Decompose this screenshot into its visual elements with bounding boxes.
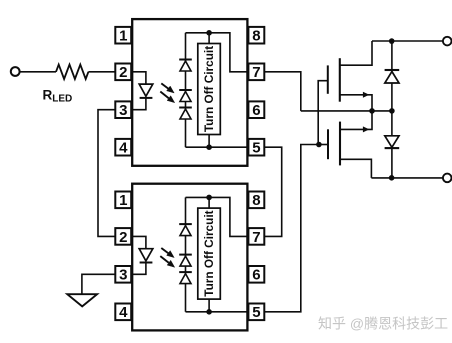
Q2 gate wire <box>319 144 328 146</box>
U1 top rail wire to pin7 <box>186 33 249 72</box>
svg-text:4: 4 <box>119 140 128 157</box>
gate tie wire <box>318 81 328 145</box>
wire U2 pin3 to ground <box>82 274 115 294</box>
svg-text:3: 3 <box>119 267 127 284</box>
output terminal T3 <box>443 174 452 183</box>
U1 LED <box>139 84 153 96</box>
U2 pin 4 <box>115 304 131 322</box>
U1 pin 4 <box>115 139 131 157</box>
U1 LED cathode wire to pin3 <box>132 98 146 110</box>
U1 TOC bottom stub <box>208 135 210 148</box>
U2 turn off circuit block <box>198 208 221 299</box>
U1 turn off circuit block <box>198 44 221 135</box>
U2 LED cathode wire to pin3 <box>132 263 146 275</box>
U2 photodiode stack wire <box>185 197 187 311</box>
node mid rail junction <box>389 108 395 114</box>
output terminal T2 <box>443 37 452 46</box>
wire U1 pin3 to U2 pin2 <box>98 110 115 237</box>
U2 bottom rail wire to pin5 <box>186 311 249 313</box>
svg-text:5: 5 <box>252 304 260 321</box>
transistor Q1 gate bar <box>327 65 329 93</box>
svg-text:8: 8 <box>252 28 260 45</box>
U2 TOC top stub <box>208 197 210 208</box>
U1 pin 8 <box>248 27 264 45</box>
U1 photodiode stack wire <box>185 33 187 147</box>
svg-text:1: 1 <box>119 192 127 209</box>
U1 pin 2 <box>115 64 131 82</box>
U1 junction top <box>206 30 212 36</box>
U2 photodiode PD1 <box>179 224 192 236</box>
U2 pin 6 <box>248 266 264 284</box>
U2 pin 1 <box>115 192 131 210</box>
U2 photodiode PD3 <box>179 272 192 284</box>
U1 photodiode PD2 <box>179 90 192 102</box>
svg-text:8: 8 <box>252 192 260 209</box>
wire resistor to U1 pin2 <box>88 71 115 73</box>
U1 pin 5 <box>248 139 264 157</box>
U1 LED anode wire from pin2 <box>132 72 146 84</box>
resistor RLED <box>56 65 88 79</box>
node gate junction <box>316 142 322 148</box>
optocoupler U1 body <box>132 19 247 166</box>
optocoupler U2 body <box>132 184 247 331</box>
svg-text:知乎 @腾恩科技彭工: 知乎 @腾恩科技彭工 <box>318 316 448 332</box>
top output rail <box>372 40 443 42</box>
input terminal T1 <box>11 67 20 76</box>
svg-text:7: 7 <box>252 229 260 246</box>
U2 LED anode wire from pin2 <box>132 236 146 248</box>
blocking diode column wire <box>391 41 393 178</box>
U2 pin 5 <box>248 304 264 322</box>
U1 junction bottom <box>206 144 212 150</box>
svg-text:3: 3 <box>119 102 127 119</box>
U2 photodiode PD2 <box>179 255 192 267</box>
Q1 drain wire <box>340 41 372 65</box>
U1 pin 3 <box>115 101 131 119</box>
U1 light arrow 2 <box>160 92 174 103</box>
U1 TOC top stub <box>208 33 210 44</box>
svg-text:Turn Off Circuit: Turn Off Circuit <box>202 46 216 132</box>
Q2 source wire with arrow <box>340 111 372 132</box>
Q2 drain wire <box>340 159 371 178</box>
U2 junction bottom <box>206 309 212 315</box>
U2 top rail wire to pin7 <box>186 197 249 236</box>
svg-text:2: 2 <box>119 229 127 246</box>
transistor Q2 gate bar <box>327 129 329 159</box>
U1 pin 7 <box>248 64 264 82</box>
diode D2 bottom <box>385 136 400 148</box>
Q1 source wire with arrow <box>340 92 372 111</box>
U2 TOC bottom stub <box>208 299 210 312</box>
U1 photodiode PD1 <box>179 60 192 72</box>
wire U1 pin5 to U2 pin7 <box>264 147 281 236</box>
U2 junction top <box>206 195 212 201</box>
U2 pin 2 <box>115 228 131 246</box>
U1 pin 1 <box>115 27 131 45</box>
svg-text:6: 6 <box>252 267 260 284</box>
U2 pin 3 <box>115 266 131 284</box>
U1 bottom rail wire to pin5 <box>186 146 249 148</box>
transistor Q1 channel bar <box>339 58 341 101</box>
U2 pin 7 <box>248 228 264 246</box>
node source junction <box>369 108 375 114</box>
svg-text:4: 4 <box>119 304 128 321</box>
node top rail junction <box>389 38 395 44</box>
bottom output rail <box>371 177 443 179</box>
common source rail <box>301 110 392 112</box>
wire U1 pin7 to common source rail <box>264 72 301 111</box>
ground <box>67 294 97 306</box>
U2 light arrow 1 <box>161 248 174 258</box>
node bottom rail junction <box>389 175 395 181</box>
transistor Q2 channel bar <box>339 122 341 166</box>
svg-text:Turn Off Circuit: Turn Off Circuit <box>202 210 216 296</box>
U1 light arrow 1 <box>161 83 174 93</box>
U2 LED <box>139 249 153 261</box>
diode D1 top <box>385 70 400 83</box>
U2 pin 8 <box>248 192 264 210</box>
svg-text:1: 1 <box>119 28 127 45</box>
wire U2 pin5 to gate node <box>264 145 319 312</box>
svg-text:2: 2 <box>119 64 127 81</box>
U1 pin 6 <box>248 101 264 119</box>
U2 light arrow 2 <box>160 256 174 267</box>
svg-text:7: 7 <box>252 64 260 81</box>
U1 photodiode PD3 <box>179 108 192 120</box>
svg-text:6: 6 <box>252 102 260 119</box>
svg-text:RLED: RLED <box>43 88 73 105</box>
svg-text:5: 5 <box>252 140 260 157</box>
wire T1 to resistor <box>20 71 56 73</box>
